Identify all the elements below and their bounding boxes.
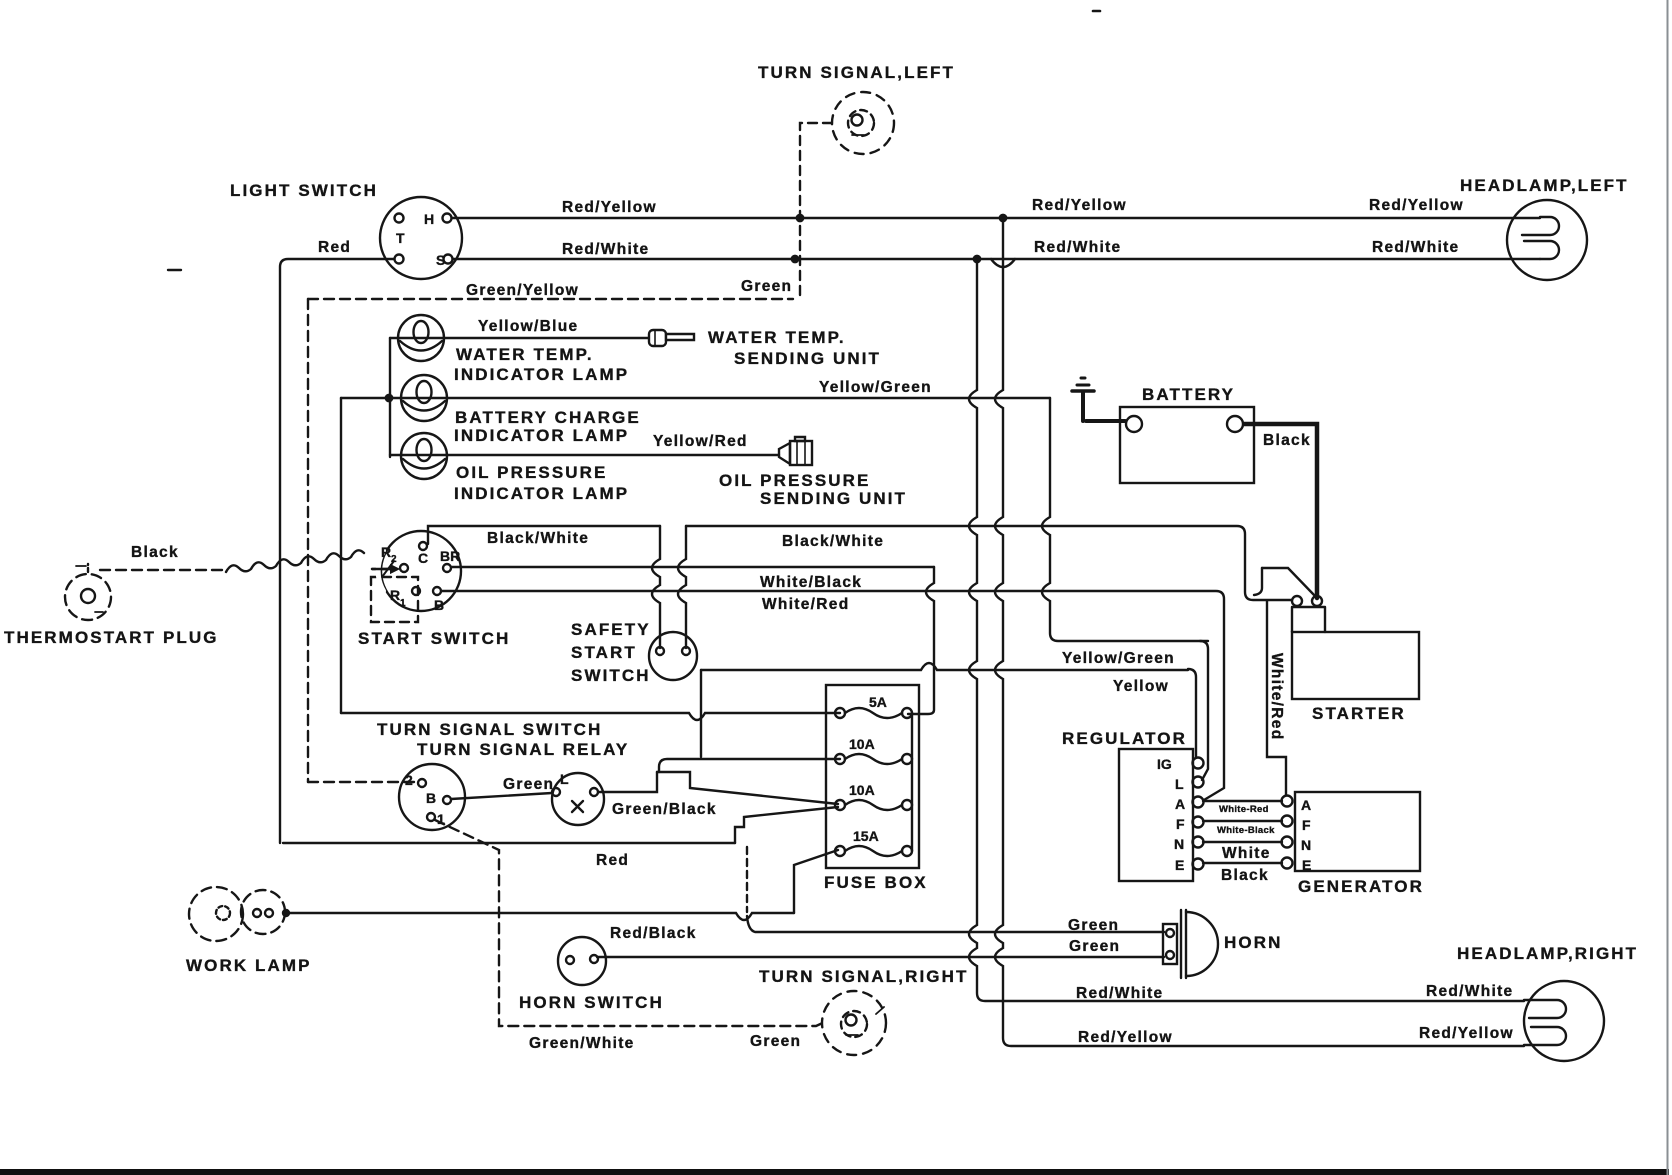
svg-text:LIGHT SWITCH: LIGHT SWITCH: [230, 181, 378, 200]
svg-text:T: T: [396, 230, 405, 246]
svg-text:Yellow/Green: Yellow/Green: [1062, 650, 1175, 667]
svg-text:A: A: [1301, 797, 1311, 813]
svg-text:B: B: [434, 597, 444, 613]
svg-text:HORN: HORN: [1224, 933, 1282, 952]
svg-text:Green: Green: [1069, 938, 1120, 955]
svg-text:HEADLAMP,RIGHT: HEADLAMP,RIGHT: [1457, 944, 1638, 963]
svg-text:Green/Yellow: Green/Yellow: [466, 282, 579, 299]
svg-text:WATER TEMP.: WATER TEMP.: [708, 328, 846, 347]
svg-text:THERMOSTART PLUG: THERMOSTART PLUG: [4, 628, 219, 647]
svg-text:Red/Yellow: Red/Yellow: [562, 199, 657, 216]
svg-text:SWITCH: SWITCH: [571, 666, 651, 685]
svg-text:TURN SIGNAL,LEFT: TURN SIGNAL,LEFT: [758, 63, 955, 82]
svg-text:INDICATOR LAMP: INDICATOR LAMP: [454, 365, 629, 384]
svg-text:F: F: [1302, 817, 1311, 833]
svg-text:SAFETY: SAFETY: [571, 620, 651, 639]
svg-text:Green: Green: [741, 278, 792, 295]
svg-text:Black: Black: [1263, 432, 1311, 449]
svg-text:R: R: [390, 587, 400, 603]
svg-text:L: L: [1175, 776, 1184, 792]
svg-text:15A: 15A: [853, 828, 879, 844]
svg-text:WORK LAMP: WORK LAMP: [186, 956, 312, 975]
svg-text:Red/Yellow: Red/Yellow: [1078, 1029, 1173, 1046]
svg-text:Green: Green: [750, 1033, 801, 1050]
svg-text:C: C: [418, 550, 428, 566]
svg-text:INDICATOR LAMP: INDICATOR LAMP: [454, 484, 629, 503]
svg-text:White/Red: White/Red: [762, 596, 849, 613]
svg-text:REGULATOR: REGULATOR: [1062, 729, 1187, 748]
svg-text:Green: Green: [1068, 917, 1119, 934]
svg-text:WATER TEMP.: WATER TEMP.: [456, 345, 594, 364]
svg-text:Red: Red: [596, 852, 629, 869]
svg-text:2: 2: [391, 554, 397, 565]
svg-text:E: E: [1175, 857, 1184, 873]
svg-text:SENDING UNIT: SENDING UNIT: [734, 349, 881, 368]
svg-text:10A: 10A: [849, 782, 875, 798]
svg-text:White-Red: White-Red: [1219, 804, 1269, 815]
svg-text:BATTERY CHARGE: BATTERY CHARGE: [455, 408, 641, 427]
svg-text:White-Black: White-Black: [1217, 825, 1275, 836]
svg-text:INDICATOR LAMP: INDICATOR LAMP: [454, 426, 629, 445]
svg-text:OIL PRESSURE: OIL PRESSURE: [719, 471, 870, 490]
svg-text:Yellow: Yellow: [1113, 678, 1169, 695]
svg-text:Red/White: Red/White: [1426, 983, 1513, 1000]
svg-text:Black/White: Black/White: [487, 530, 589, 547]
svg-text:TURN SIGNAL SWITCH: TURN SIGNAL SWITCH: [377, 720, 602, 739]
svg-text:Red/Yellow: Red/Yellow: [1369, 197, 1464, 214]
svg-text:Green: Green: [503, 776, 554, 793]
svg-text:White: White: [1222, 845, 1271, 862]
svg-text:L: L: [560, 771, 569, 787]
svg-text:Yellow/Blue: Yellow/Blue: [478, 318, 578, 335]
svg-text:Black/White: Black/White: [782, 533, 884, 550]
svg-text:BR: BR: [440, 548, 460, 564]
svg-text:10A: 10A: [849, 736, 875, 752]
svg-text:5A: 5A: [869, 694, 887, 710]
svg-text:IG: IG: [1157, 756, 1172, 772]
svg-text:Red/White: Red/White: [562, 241, 649, 258]
svg-text:S: S: [436, 252, 445, 268]
svg-text:START: START: [571, 643, 637, 662]
svg-text:Black: Black: [1221, 867, 1269, 884]
svg-text:White/Red: White/Red: [1268, 653, 1285, 740]
svg-text:E: E: [1302, 857, 1311, 873]
svg-text:Red/White: Red/White: [1034, 239, 1121, 256]
svg-text:Yellow/Green: Yellow/Green: [819, 379, 932, 396]
svg-text:TURN SIGNAL RELAY: TURN SIGNAL RELAY: [417, 740, 629, 759]
svg-text:1: 1: [400, 598, 406, 609]
svg-text:White/Black: White/Black: [760, 574, 862, 591]
svg-text:Yellow/Red: Yellow/Red: [653, 433, 748, 450]
svg-text:Green/White: Green/White: [529, 1035, 635, 1052]
svg-text:H: H: [424, 211, 434, 227]
svg-text:BATTERY: BATTERY: [1142, 385, 1235, 404]
svg-text:A: A: [1175, 796, 1185, 812]
svg-text:STARTER: STARTER: [1312, 704, 1406, 723]
svg-text:Red/White: Red/White: [1372, 239, 1459, 256]
svg-text:TURN SIGNAL,RIGHT: TURN SIGNAL,RIGHT: [759, 967, 968, 986]
svg-text:1: 1: [437, 811, 445, 827]
svg-text:OIL PRESSURE: OIL PRESSURE: [456, 463, 607, 482]
svg-text:Red/Yellow: Red/Yellow: [1032, 197, 1127, 214]
svg-text:2: 2: [405, 772, 413, 788]
svg-text:Green/Black: Green/Black: [612, 801, 717, 818]
svg-text:R: R: [381, 544, 391, 560]
svg-text:B: B: [426, 790, 436, 806]
svg-text:HEADLAMP,LEFT: HEADLAMP,LEFT: [1460, 176, 1629, 195]
svg-text:SENDING UNIT: SENDING UNIT: [760, 489, 907, 508]
svg-text:Red/Yellow: Red/Yellow: [1419, 1025, 1514, 1042]
svg-text:START SWITCH: START SWITCH: [358, 629, 510, 648]
svg-text:Red/Black: Red/Black: [610, 925, 697, 942]
svg-text:F: F: [1176, 816, 1185, 832]
svg-text:N: N: [1301, 837, 1311, 853]
svg-text:HORN SWITCH: HORN SWITCH: [519, 993, 664, 1012]
svg-text:N: N: [1174, 836, 1184, 852]
svg-text:Black: Black: [131, 544, 179, 561]
svg-text:Red: Red: [318, 239, 351, 256]
svg-text:GENERATOR: GENERATOR: [1298, 877, 1424, 896]
svg-text:FUSE BOX: FUSE BOX: [824, 873, 928, 892]
svg-text:Red/White: Red/White: [1076, 985, 1163, 1002]
